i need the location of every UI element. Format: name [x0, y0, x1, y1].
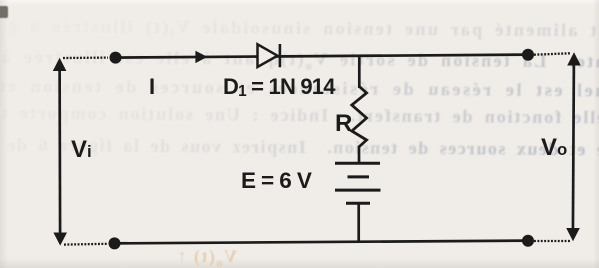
label I [149, 74, 155, 100]
node dot top left [110, 52, 122, 64]
dotted wire bottom right [534, 240, 570, 242]
dotted wire top left [63, 56, 108, 59]
page edge text fragment top-left [0, 6, 8, 18]
arrowhead Vo top [567, 52, 581, 65]
label D1 = 1N 914 [223, 74, 335, 100]
left terminal line Vi [58, 66, 61, 236]
dotted wire bottom left [64, 243, 107, 246]
wire bottom [112, 241, 530, 244]
label Vo [541, 134, 567, 162]
right terminal line Vo [573, 60, 574, 234]
node dot top right [522, 49, 534, 61]
wire resistor to battery [358, 146, 361, 164]
arrowhead Vi top [53, 58, 67, 71]
battery E plate long [335, 189, 381, 192]
diode D1 body [258, 44, 278, 67]
dotted wire top right [534, 53, 570, 54]
label R [335, 110, 352, 138]
node dot bottom right [522, 235, 534, 247]
battery E plate short [348, 175, 370, 178]
diode D1 cathode bar [279, 44, 282, 67]
battery E plate long top [335, 162, 380, 165]
wire battery to bottom [357, 203, 360, 242]
label Vi [71, 136, 92, 164]
label E = 6 V [241, 168, 311, 194]
node dot bottom left [109, 237, 121, 249]
resistor R [352, 87, 367, 148]
arrowhead Vo bottom [566, 228, 580, 241]
battery E plate short bottom [346, 202, 370, 205]
wire middle branch top [358, 56, 361, 88]
current arrow I [195, 51, 207, 63]
wire top [113, 55, 530, 58]
arrowhead Vi bottom [53, 233, 67, 246]
